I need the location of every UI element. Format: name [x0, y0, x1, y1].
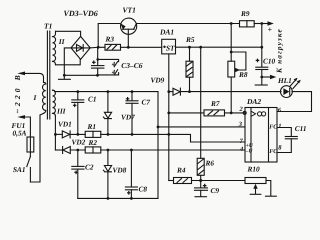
wire ground rail corner down to pin3 line and bottom rail: [157, 92, 159, 199]
svg-text:C3–C6: C3–C6: [121, 61, 143, 70]
resistor R6: [197, 158, 214, 180]
node emitter/C3 column: [97, 46, 100, 49]
ground rail from winding III top: [55, 91, 158, 93]
node rail47 R6 column: [199, 46, 202, 49]
node +U tee: [167, 133, 170, 136]
wire winding III bottom down to diodes: [54, 116, 56, 150]
wire winding II bottom to bridge bottom: [56, 59, 81, 64]
wire winding II top to bridge top: [56, 31, 81, 36]
svg-text:C8: C8: [139, 185, 148, 194]
svg-text:R9: R9: [240, 9, 250, 18]
resistor R4: [169, 166, 245, 184]
svg-text:–U: –U: [245, 148, 254, 154]
svg-text:VD2: VD2: [72, 138, 86, 147]
svg-text:DA2: DA2: [246, 97, 261, 106]
svg-text:VD8: VD8: [113, 166, 127, 175]
svg-text:R6: R6: [205, 159, 215, 168]
node pin3 / ground column: [157, 126, 160, 129]
svg-text:HL1: HL1: [277, 76, 292, 85]
node VD9 line left: [167, 90, 170, 93]
winding I: [33, 82, 46, 115]
mains input upper arrow: [17, 72, 43, 83]
node R7 left: [167, 112, 170, 115]
svg-text:DA1: DA1: [159, 28, 174, 37]
mains input lower arrow: [17, 115, 30, 137]
svg-text:ST: ST: [166, 43, 175, 52]
svg-text:3: 3: [238, 121, 243, 128]
wire bridge right vertex to node: [90, 46, 98, 49]
stabilizer DA1: [159, 28, 176, 54]
resistor R1: [85, 122, 169, 137]
resistor R3: [98, 35, 128, 51]
annotation 4-wire tap marks: [98, 59, 119, 76]
wire DA1 bottom column down to R4 line: [168, 54, 170, 181]
svg-text:III: III: [56, 107, 67, 116]
wire rail47 DA1 to C10 column: [176, 46, 262, 48]
svg-text:4: 4: [111, 69, 116, 76]
node after R9: [260, 22, 263, 25]
capacitor C11 loop pins 1-8: [277, 124, 307, 153]
IC DA2: [245, 97, 279, 162]
wire top rail right of VT1: [137, 23, 240, 25]
wire rail47 R3 to DA1: [128, 46, 161, 48]
svg-text:1: 1: [278, 123, 281, 130]
node VD7: [107, 90, 110, 93]
svg-text:C10: C10: [263, 57, 276, 66]
capacitor C3-C6: [92, 47, 104, 75]
svg-text:R2: R2: [88, 138, 98, 147]
LED HL1: [277, 76, 301, 98]
wire VT1 emitter left segment: [98, 24, 120, 48]
wire bridge left vertex down: [64, 48, 72, 75]
wire pin3 line: [158, 126, 245, 128]
svg-text:C2: C2: [85, 163, 94, 172]
capacitor C7: [126, 92, 151, 135]
svg-text:VD9: VD9: [151, 76, 165, 85]
zener VD7: [103, 92, 135, 135]
svg-text:R1: R1: [87, 122, 97, 131]
node C7: [131, 90, 134, 93]
winding II: [53, 31, 66, 65]
node VT1 base / R3 right: [127, 46, 130, 49]
potentiometer R10: [245, 165, 276, 197]
capacitor C10: [255, 24, 275, 86]
svg-text:T1: T1: [44, 22, 52, 31]
diode VD2: [55, 138, 85, 154]
output - arrow: [262, 75, 277, 80]
wire pin7 step: [169, 134, 245, 142]
wire LED loop to pin6: [277, 92, 312, 112]
output + arrow: [262, 21, 274, 34]
winding III: [53, 90, 67, 116]
svg-text:SA1: SA1: [13, 165, 26, 174]
svg-text:0,5A: 0,5A: [13, 129, 27, 138]
svg-text:II: II: [58, 37, 66, 46]
svg-text:R5: R5: [185, 35, 195, 44]
svg-text:C1: C1: [88, 95, 97, 104]
resistor R5: [185, 35, 195, 93]
svg-text:C7: C7: [142, 98, 151, 107]
svg-text:4: 4: [111, 61, 116, 68]
fuse FU1: [12, 121, 34, 152]
svg-text:R7: R7: [210, 99, 220, 108]
capacitor C8: [125, 150, 147, 198]
node R4/R6/C9: [199, 179, 202, 182]
diode VD1: [55, 120, 85, 138]
diode VD9: [151, 76, 282, 96]
capacitor C1: [72, 92, 97, 135]
resistor R9: [240, 9, 262, 27]
svg-text:VD1: VD1: [58, 120, 72, 129]
zener VD8: [103, 150, 126, 198]
switch SA1: [13, 152, 30, 182]
svg-text:+: +: [268, 25, 273, 34]
capacitor C9: [195, 181, 220, 197]
bridge rectifier VD3-VD6: [71, 36, 90, 59]
svg-text:VD7: VD7: [121, 113, 135, 122]
svg-text:C11: C11: [295, 124, 307, 133]
ground symbol: [59, 75, 71, 79]
transistor VT1: [121, 18, 137, 47]
transformer T1 core: [47, 31, 49, 119]
svg-text:~220 В: ~220 В: [13, 72, 22, 113]
resistor R2: [85, 138, 245, 153]
node top rail R8 column: [230, 22, 233, 25]
svg-text:R3: R3: [105, 35, 115, 44]
wire R6 column down: [200, 47, 202, 158]
node C1: [76, 90, 79, 93]
capacitor C2: [72, 150, 94, 198]
resistor R7: [169, 99, 245, 116]
svg-text:R8: R8: [238, 70, 248, 79]
svg-text:R10: R10: [247, 165, 261, 174]
bottom rail: [78, 197, 158, 199]
rheostat R8: [228, 24, 248, 113]
svg-text:К нагрузке: К нагрузке: [275, 28, 284, 74]
wire switch bottom to winding I bottom: [30, 115, 40, 182]
svg-text:R4: R4: [176, 166, 186, 175]
pin 2 circle: [243, 111, 246, 114]
svg-text:VD3–VD6: VD3–VD6: [64, 9, 98, 18]
svg-text:C9: C9: [211, 186, 220, 195]
wire ground line to C3 bottom: [64, 74, 97, 76]
svg-text:VT1: VT1: [123, 6, 136, 15]
ground node below bridge: [63, 74, 66, 77]
